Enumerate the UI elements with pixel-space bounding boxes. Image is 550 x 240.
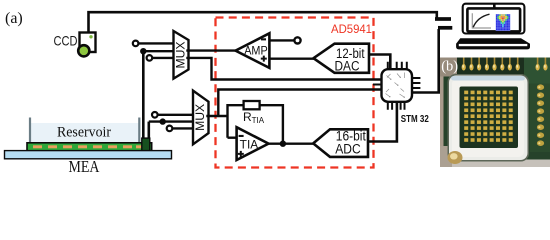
reservoir wall left [29,118,31,144]
svg-text:ADC: ADC [335,142,361,157]
mcu STM32 pins bottom [388,102,405,110]
reservoir liquid [31,123,139,144]
wire MUX1 to AMP [186,49,235,51]
mea base plate [5,151,172,159]
mea green board [27,143,152,152]
svg-text:CCD: CCD [54,32,78,48]
op-amp TIA [237,127,269,160]
svg-text:MUX: MUX [195,104,207,131]
mux MUX2 (readout) [193,91,209,145]
node terminal bottom MUX input 3 [167,126,173,132]
wire bottom MUX input 3 [172,127,197,129]
adc 16-bit ADC [313,129,368,157]
reservoir wall right [138,118,140,144]
svg-text:MUX: MUX [175,41,187,68]
dac 12-bit DAC [314,44,370,73]
wire MEA to top MUX (selected electrode) [142,51,145,140]
svg-text:TIA: TIA [240,140,259,152]
mcu STM32 pins right [412,78,420,93]
wire bottom MUX input 2 [149,120,197,122]
mea electrodes (orange dashes) [33,145,144,148]
mea connector block [142,138,150,151]
mcu STM32 pins left [373,80,382,90]
wire top MUX input 3 [152,57,178,59]
mcu STM32 inner traces [386,73,405,98]
node terminal top MUX input 1 [133,41,139,47]
connector prong upper [435,17,451,21]
node junction top MUX input 2 [140,48,146,54]
svg-text:(a): (a) [5,10,23,27]
wire MUX2 output to TIA node [206,115,227,117]
CCD lens green circle [78,45,89,56]
wire bottom MUX input 1 [158,114,197,116]
wire node to TIA inverting input [228,136,237,138]
wire top long from CCD to laptop [89,12,437,31]
wire MUX1 sense to STM32 [186,58,381,80]
wire laptop to STM32 [412,29,439,93]
box AD5941 dashed red [216,18,374,168]
photo (b) MEA chip [440,58,550,168]
laptop body [456,4,530,50]
svg-text:(b): (b) [441,59,458,75]
node junction bottom MUX input 2 [160,118,166,124]
wire top MUX input 2 [143,50,178,52]
wire ADC output to STM32 [368,102,397,142]
node terminal top MUX input 3 [147,55,153,61]
mcu STM32 body [382,69,413,102]
svg-text:DAC: DAC [335,59,360,74]
node terminal bottom MUX input 1 [152,112,158,118]
wire top MUX input 1 [139,42,179,44]
op-amp AMP [236,33,270,68]
svg-text:STM 32: STM 32 [401,114,429,125]
wire TIA output to ADC [269,142,315,144]
laptop screen curve [473,14,489,27]
node terminal AMP feedback [294,37,300,43]
CCD camera body [80,33,96,53]
svg-text:AD5941: AD5941 [331,22,372,36]
wire DAC to AMP non-inverting input [269,58,314,60]
wire DAC output to STM32 [369,55,390,70]
connector prong lower [438,26,452,30]
wire TIA feedback loop with resistor [228,105,283,144]
CCD indicator dot [89,35,92,38]
resistor R_TIA [244,101,260,109]
svg-text:Reservoir: Reservoir [57,125,111,141]
wire MEA to bottom MUX (selected electrode) [148,122,151,140]
node junction TIA output [280,141,286,147]
laptop screen plot axes [472,13,491,28]
mcu STM32 pins top [388,62,407,70]
mux MUX1 (stimulation) [174,31,189,79]
wire AMP inverting input to terminal [269,39,294,41]
laptop screen heatmap [496,14,511,31]
svg-text:MEA: MEA [69,157,101,176]
wire MUX2 sense to STM32 [218,90,381,117]
